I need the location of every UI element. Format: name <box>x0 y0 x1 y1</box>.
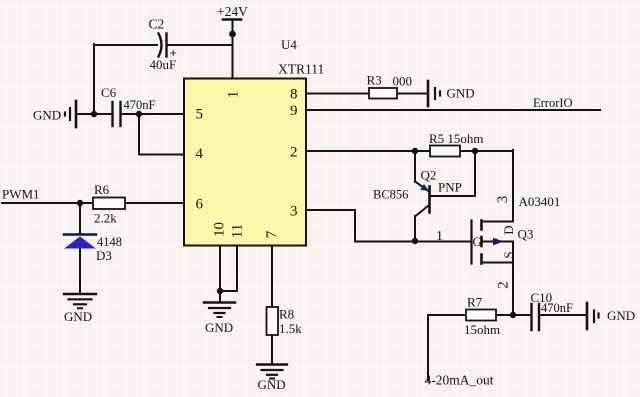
ground below R8 <box>257 365 287 393</box>
resistor R7 <box>464 295 500 338</box>
svg-text:2.2k: 2.2k <box>94 211 117 226</box>
svg-text:1: 1 <box>436 229 443 244</box>
svg-text:9: 9 <box>290 103 298 119</box>
svg-text:2: 2 <box>496 281 512 289</box>
svg-text:PNP: PNP <box>438 180 462 195</box>
resistor R5 <box>429 131 484 157</box>
wire node to C10 <box>513 314 530 316</box>
svg-text:4148: 4148 <box>97 235 122 249</box>
ground GND (right of R3, sideways) <box>428 81 475 106</box>
transistor Q2 BC856 PNP <box>373 168 462 217</box>
wire R7 right to node <box>496 314 513 316</box>
net label ErrorIO <box>533 96 573 110</box>
wire drain vertical <box>483 150 514 222</box>
svg-text:GND: GND <box>205 320 233 335</box>
svg-text:4-20mA_out: 4-20mA_out <box>425 373 494 388</box>
svg-text:S: S <box>501 251 516 258</box>
svg-text:R7: R7 <box>467 295 483 310</box>
svg-text:ErrorIO: ErrorIO <box>533 96 573 110</box>
svg-text:1: 1 <box>226 91 242 99</box>
wire C2 left <box>94 44 157 46</box>
svg-text:U4: U4 <box>281 37 297 52</box>
svg-text:R5 15ohm: R5 15ohm <box>429 131 484 146</box>
svg-text:A03401: A03401 <box>519 194 561 209</box>
wire Q2 emitter vertical <box>414 150 416 182</box>
pin 4 number <box>196 146 204 162</box>
svg-text:8: 8 <box>290 87 298 103</box>
op-amp U4 XTR111 body <box>184 79 306 246</box>
wire pin 11 stem <box>220 246 237 291</box>
wire C2 right to +24V stem <box>167 44 233 46</box>
wire R5 right to drain corner <box>460 150 513 152</box>
svg-text:GND: GND <box>607 308 635 323</box>
svg-text:4: 4 <box>196 146 204 162</box>
svg-text:D3: D3 <box>96 248 112 263</box>
wire R8 to ground <box>271 335 273 364</box>
wire D3 bottom stem to ground <box>79 248 81 294</box>
wire C10 to GND <box>539 314 585 316</box>
U4 designator <box>281 37 297 52</box>
svg-text:PWM1: PWM1 <box>2 187 40 202</box>
junction at output node <box>510 312 516 318</box>
svg-text:D: D <box>501 225 516 234</box>
svg-text:R8: R8 <box>279 307 294 322</box>
ground below D3 <box>64 294 96 324</box>
junction at PWM1/D3 <box>77 200 83 206</box>
wire Q2 base to R5 right <box>431 151 476 196</box>
ground GND (left, sideways) <box>33 101 76 127</box>
pin 9 number <box>290 103 298 119</box>
diode D3 (4148) <box>64 235 122 264</box>
svg-text:GND: GND <box>33 108 61 123</box>
wire R6 to pin 6 <box>125 202 184 204</box>
wire pin 10 stem <box>219 246 221 302</box>
capacitor C2 <box>149 17 177 73</box>
wire C6 to pin 5 <box>121 113 184 115</box>
svg-text:G: G <box>473 234 482 249</box>
svg-text:40uF: 40uF <box>150 57 177 72</box>
svg-text:R6: R6 <box>94 182 110 197</box>
pin 3 number <box>290 204 298 220</box>
svg-text:GND: GND <box>447 86 475 101</box>
svg-text:R3: R3 <box>367 73 382 88</box>
pin 5 number <box>196 107 204 123</box>
ground below pins 10/11 <box>204 303 235 336</box>
svg-text:1.5k: 1.5k <box>279 321 302 336</box>
svg-text:6: 6 <box>196 197 204 213</box>
capacitor C6 <box>101 85 156 126</box>
svg-text:10: 10 <box>212 222 228 237</box>
+24V label <box>217 4 248 19</box>
svg-text:C2: C2 <box>149 17 165 32</box>
pin 6 number <box>196 197 204 213</box>
power +24V symbol <box>223 18 241 21</box>
svg-text:11: 11 <box>230 224 246 238</box>
wire GND to C6 <box>76 113 112 115</box>
pin 1 number (rotated) <box>226 91 242 99</box>
svg-text:5: 5 <box>196 107 204 123</box>
junction at gate node <box>412 238 418 244</box>
svg-text:Q3: Q3 <box>518 227 534 242</box>
resistor R8 <box>267 307 303 337</box>
wire pin 3 to gate <box>306 210 471 242</box>
net label 4-20mA_out <box>425 373 494 388</box>
wire pin 9 ErrorIO <box>306 109 600 111</box>
wire branch to pin 4 <box>139 114 184 155</box>
ground GND (bottom right, sideways) <box>587 303 635 329</box>
resistor R3 <box>367 73 413 99</box>
svg-text:15ohm: 15ohm <box>464 322 500 337</box>
svg-text:470nF: 470nF <box>541 301 573 315</box>
wire D3 top stem <box>79 203 81 234</box>
svg-text:Q2: Q2 <box>421 168 437 183</box>
svg-text:3: 3 <box>495 196 511 204</box>
svg-text:XTR111: XTR111 <box>278 62 324 77</box>
svg-text:000: 000 <box>393 74 413 89</box>
svg-text:GND: GND <box>64 309 92 324</box>
junction at C6 branch <box>136 111 142 117</box>
wire Q2 collector vertical <box>414 216 416 242</box>
transistor Q3 A03401 P-MOSFET <box>436 194 560 289</box>
wire PWM1 to R6 <box>2 202 93 204</box>
pin 2 number <box>290 145 298 161</box>
junction at C2/GND wire <box>91 111 97 117</box>
pin 7 number (rotated) <box>264 230 280 238</box>
wire pin 8 to R3 <box>306 93 369 95</box>
wire pin 2 to R5 <box>306 150 430 152</box>
wire +24V stem to pin 1 <box>232 20 234 79</box>
wire R3 to GND <box>397 93 427 95</box>
resistor R6 <box>93 182 125 226</box>
wire pin 7 to R8 <box>271 246 273 307</box>
junction at R5 right <box>472 148 478 154</box>
pin 11 number (rotated) <box>230 224 246 238</box>
U4 value XTR111 <box>278 62 324 77</box>
svg-text:C6: C6 <box>101 85 117 100</box>
net label PWM1 <box>2 187 40 202</box>
capacitor C10 <box>531 290 574 330</box>
wire R7 left to 4-20mA_out <box>428 315 466 380</box>
svg-text:470nF: 470nF <box>124 98 156 112</box>
pin 8 number <box>290 87 298 103</box>
svg-text:7: 7 <box>264 230 280 238</box>
wire MOSFET source down to output node <box>512 263 514 316</box>
svg-text:GND: GND <box>258 377 286 392</box>
junction at R5 left <box>412 148 418 154</box>
svg-text:BC856: BC856 <box>373 188 408 202</box>
junction at +24V <box>229 31 236 38</box>
wire C2 left vertical drop <box>93 44 95 114</box>
svg-text:2: 2 <box>290 145 298 161</box>
junction at pins 10/11 <box>217 288 223 294</box>
svg-text:+24V: +24V <box>217 4 248 19</box>
svg-text:3: 3 <box>290 204 298 220</box>
pin 10 number (rotated) <box>212 222 228 237</box>
